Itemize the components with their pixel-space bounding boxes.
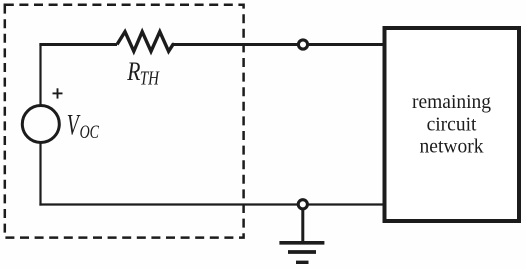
svg-text:OC: OC (80, 121, 100, 143)
svg-text:network: network (420, 136, 484, 157)
svg-text:circuit: circuit (427, 114, 477, 135)
svg-text:remaining: remaining (412, 92, 491, 113)
svg-text:TH: TH (140, 66, 160, 88)
svg-text:R: R (126, 58, 140, 86)
svg-text:V: V (67, 108, 81, 141)
